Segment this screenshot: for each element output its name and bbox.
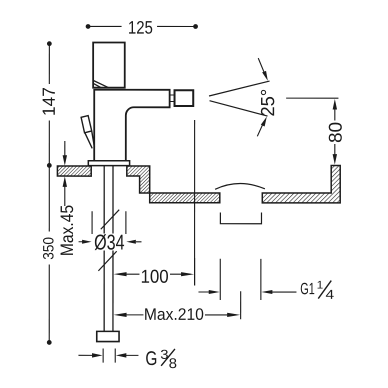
dimension 80 reference line — [286, 97, 338, 99]
bidet lower slab right piece and back wall — [262, 165, 340, 202]
label 125 — [129, 21, 152, 34]
label G38 G — [146, 351, 156, 365]
label G1 sub4 — [326, 290, 334, 299]
dimension G3/8 label — [161, 349, 175, 366]
dimension Max.210 line — [114, 313, 241, 317]
dimension G1 1/4 arrows — [198, 290, 296, 294]
dimension Max.210 end tick — [240, 291, 242, 319]
label Max.210 — [145, 308, 203, 320]
pipe tail fitting G3/8 — [97, 331, 119, 341]
bidet rim arc — [215, 184, 265, 190]
label Max.45 — [61, 206, 74, 255]
pipe break marks — [98, 210, 119, 271]
faucet body and spout — [94, 90, 169, 161]
left dimension dots — [47, 41, 52, 46]
label O34 — [95, 234, 124, 250]
base plate — [88, 161, 129, 166]
dimension 100 end tick — [194, 258, 196, 286]
dimension O34 arrows — [79, 240, 142, 244]
angle arrow upper — [258, 58, 268, 81]
dimension 125 line — [88, 25, 196, 27]
dimension O34 extension ticks — [92, 211, 126, 234]
drain outline bracket — [220, 213, 261, 224]
spray cone upper line — [209, 81, 270, 96]
spray cone lower line — [210, 101, 268, 116]
dimension 100 line — [114, 272, 195, 276]
dimension 125 end dots — [86, 24, 91, 29]
label 350 — [43, 238, 54, 260]
dimension G3/8 arrows — [78, 353, 138, 357]
left vertical dimension line (147 / 350) — [48, 44, 50, 343]
faucet lever handle — [81, 116, 94, 149]
dimension G1 1/4 ticks — [220, 259, 261, 300]
label G1 sup1 — [318, 281, 323, 289]
dimension Max.45 bottom arrow — [63, 176, 67, 206]
label G38 sub8 — [169, 358, 176, 368]
countertop left slab piece — [57, 166, 91, 176]
angle arrow lower — [257, 117, 267, 137]
aerator — [175, 90, 194, 106]
label G1 — [301, 283, 315, 295]
label 25deg — [261, 90, 275, 116]
countertop right slab with step down — [127, 166, 220, 203]
dimension G1 1/4 label — [318, 281, 331, 299]
label G38 sup3 — [161, 350, 168, 359]
dimension G3/8 ticks — [103, 348, 115, 362]
dimension 80 line and arrows — [333, 99, 337, 165]
spout-aerator connector — [170, 95, 175, 102]
label 80 — [329, 123, 342, 143]
spray reference vertical line — [194, 120, 196, 286]
dimension Max.45 top arrow — [63, 141, 67, 166]
label 147 — [43, 88, 55, 115]
faucet handle top — [93, 42, 125, 87]
label 100 — [142, 270, 168, 283]
supply pipes — [104, 166, 113, 332]
